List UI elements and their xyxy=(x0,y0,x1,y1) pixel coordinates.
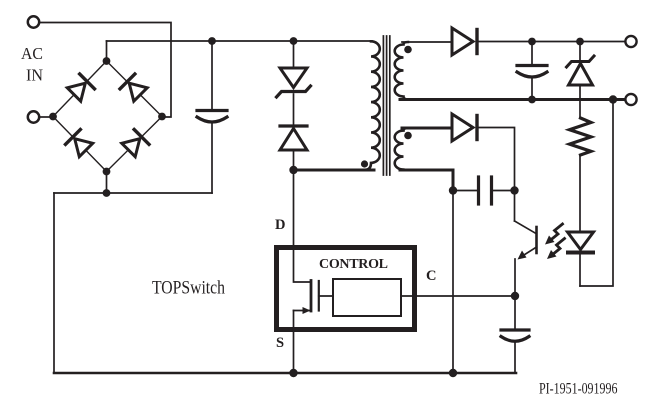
wire bridge positive riser xyxy=(106,41,108,61)
svg-text:PI-1951-091996: PI-1951-091996 xyxy=(539,381,618,398)
wire DC+ rail xyxy=(107,40,373,42)
text AC IN xyxy=(21,44,43,85)
transformer T1 secondary top winding xyxy=(395,42,408,100)
junction C node xyxy=(511,292,519,300)
svg-text:D: D xyxy=(275,217,285,233)
transformer T1 secondary bottom winding xyxy=(395,128,408,170)
transformer core xyxy=(383,36,389,175)
zener VR2 output sense xyxy=(567,42,595,119)
polarity dot primary xyxy=(361,160,368,167)
wire secondary bottom to diode D2 xyxy=(402,127,452,130)
phototransistor optocoupler xyxy=(515,191,537,297)
diode D1 output xyxy=(452,28,626,55)
wire secondary bottom return xyxy=(400,170,453,191)
text TOPSwitch xyxy=(152,279,225,299)
svg-text:AC: AC xyxy=(21,44,43,63)
svg-text:S: S xyxy=(276,335,284,351)
junction zener top xyxy=(576,38,584,46)
light arrows optocoupler xyxy=(545,224,565,259)
junction filter cap top xyxy=(528,38,536,46)
wire clamp to primary bottom xyxy=(294,169,375,172)
wire resistor to LED xyxy=(579,155,581,232)
zener clamp VR1 xyxy=(277,41,311,126)
text D pin label xyxy=(275,217,285,233)
junction S pin on rail xyxy=(289,369,297,377)
wire secondary return rail xyxy=(400,98,626,101)
junction LED return on rail xyxy=(609,95,617,103)
junction drain node xyxy=(289,166,297,174)
diode blocking D3 xyxy=(280,126,307,170)
text C pin label xyxy=(426,268,436,284)
LED optocoupler emitter side xyxy=(568,232,594,286)
bridge rectifier BR1 xyxy=(49,57,166,175)
transformer T1 primary winding xyxy=(365,41,380,170)
wire drain D xyxy=(294,170,311,282)
terminal AC input top xyxy=(28,16,39,27)
junction bias return on rail xyxy=(449,369,457,377)
svg-text:C: C xyxy=(426,268,436,284)
wire LED return loop xyxy=(580,100,613,287)
capacitor output filter xyxy=(517,42,547,100)
junction bulk cap top xyxy=(208,37,216,45)
wire C internal xyxy=(401,295,416,297)
resistor R1 bias xyxy=(570,118,592,155)
wire AC bottom to bridge left vertex xyxy=(39,116,53,118)
terminal output minus xyxy=(625,94,636,105)
junction clamp top xyxy=(290,37,298,45)
text CONTROL xyxy=(319,257,388,272)
wire control pin C xyxy=(416,295,515,297)
wire AC top to bridge right vertex xyxy=(40,23,172,118)
wire bias return vertical xyxy=(452,191,454,374)
polarity dot secondary top xyxy=(404,46,412,54)
junction bridge return xyxy=(103,189,111,197)
svg-text:TOPSwitch: TOPSwitch xyxy=(152,279,225,299)
diode D2 bias xyxy=(452,114,515,191)
MOSFET internal xyxy=(294,281,334,374)
wire bridge negative return xyxy=(54,172,212,374)
svg-text:IN: IN xyxy=(26,66,43,85)
capacitor bulk input xyxy=(197,41,227,193)
junction feedback cap right xyxy=(510,186,518,194)
wire secondary top to diode D1 xyxy=(402,41,452,43)
control block internal regulator xyxy=(333,279,401,316)
junction filter cap bottom xyxy=(528,96,536,104)
terminal AC input bottom xyxy=(28,111,39,122)
capacitor control bypass xyxy=(501,296,529,373)
svg-text:CONTROL: CONTROL xyxy=(319,257,388,272)
capacitor feedback xyxy=(453,177,515,204)
wire bottom ground rail xyxy=(54,372,516,375)
text part number xyxy=(539,381,618,398)
text S pin label xyxy=(276,335,284,351)
TOPSwitch U1 outline xyxy=(277,248,415,330)
junction feedback cap left xyxy=(449,186,457,194)
terminal output plus xyxy=(625,36,636,47)
polarity dot secondary bottom xyxy=(404,132,412,140)
